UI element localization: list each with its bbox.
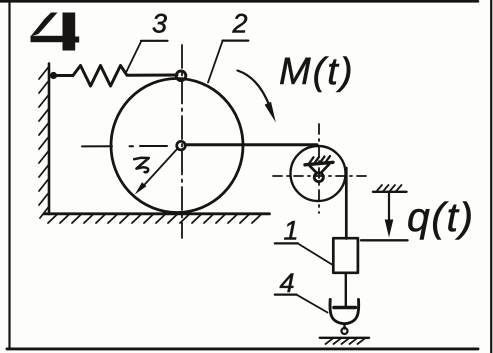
spring anchor dot: [50, 72, 57, 79]
border frame bottom: [7, 347, 478, 350]
disk 2 (big circle): [111, 79, 243, 213]
svg-text:M(t): M(t): [279, 51, 355, 93]
damper pin: [342, 328, 348, 334]
damper stem: [343, 324, 345, 329]
pulley vertical centerline: [318, 124, 320, 213]
figure number 4: [31, 13, 80, 51]
radius arrow (r): [141, 148, 178, 189]
displaced reference line: [361, 239, 408, 241]
disk horizontal centerline (dash-dot, left): [82, 145, 112, 147]
svg-text:3: 3: [152, 9, 167, 39]
q(t) datum line (hatched): [373, 191, 407, 193]
svg-text:q(t): q(t): [407, 194, 475, 240]
pulley circle: [291, 146, 346, 201]
svg-text:2: 2: [232, 9, 248, 39]
rope down from pulley to mass: [345, 168, 348, 239]
wall (left, hatched): [39, 64, 49, 219]
pulley pin: [314, 173, 323, 182]
ground under disk (hatched): [44, 214, 270, 223]
border frame right: [490, 0, 492, 353]
ground under damper (hatched): [320, 337, 369, 339]
spring 3: [54, 66, 178, 87]
pulley horizontal centerline: [273, 175, 366, 177]
moment arrow M(t): [238, 71, 270, 107]
q(t) arrow: [388, 193, 390, 227]
border frame left: [8, 0, 10, 349]
damper piston: [334, 306, 356, 310]
damper cup 4: [330, 300, 359, 324]
svg-text:1: 1: [284, 216, 299, 246]
radius label r: [134, 158, 149, 172]
rod from mass to damper piston: [345, 273, 347, 306]
top pin on disk: [176, 71, 186, 81]
rope from disk center to pulley: [185, 143, 317, 146]
border frame top: [0, 0, 478, 3]
center pin of disk: [177, 141, 186, 150]
pulley support triangle: [310, 166, 317, 173]
pulley support bar (hatched): [305, 162, 333, 165]
disk vertical centerline (dash-dot): [181, 45, 183, 238]
mass block 1: [333, 238, 358, 273]
